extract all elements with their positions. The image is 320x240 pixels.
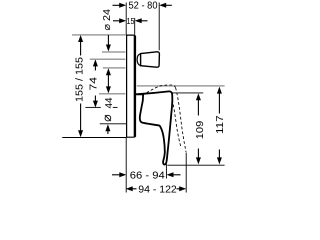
dim D24 upper arrow xyxy=(107,35,109,46)
gray reference line G5 (dashed lever top, ref for 117) xyxy=(137,85,225,87)
gray reference line G2 (knob centre) xyxy=(90,58,126,60)
gray reference line G0 (top of plate level) xyxy=(72,34,126,36)
extension line: dashed lever tip for dim 94-122 xyxy=(185,153,187,193)
svg-text:⌀ 24: ⌀ 24 xyxy=(102,9,113,31)
plate front face thick line xyxy=(134,36,136,137)
escutcheon plate (side view) xyxy=(127,35,136,137)
dimension 52-80 (installation depth) xyxy=(113,0,172,11)
extension line: wall / plate back, above plate xyxy=(125,3,127,35)
dim D24 lower arrow / D44 upper arrow shared tail xyxy=(107,74,109,88)
extension line: knob tip for dim 52-80 xyxy=(158,3,160,51)
gray reference line G4 (lever hub top) xyxy=(99,93,125,95)
svg-text:52 - 80: 52 - 80 xyxy=(129,0,158,11)
dimension 15 (escutcheon depth) xyxy=(113,16,148,26)
lever handle dashed right edge xyxy=(176,88,186,152)
dimension 66-94 (lever projection) xyxy=(112,170,181,181)
dimension 94-122 (dashed lever projection) xyxy=(126,184,187,195)
extension line: plate front for dim 15 xyxy=(134,18,136,35)
lever handle dashed (swung position) top edge xyxy=(142,85,175,95)
lever handle dashed left edge xyxy=(172,100,180,146)
svg-text:66 - 94: 66 - 94 xyxy=(130,170,165,181)
extension line B3: plate bottom (dim 155) xyxy=(62,137,126,139)
gray reference line G3 (knob bottom) xyxy=(103,67,126,69)
svg-text:15: 15 xyxy=(127,16,135,26)
knob collar xyxy=(137,54,141,66)
svg-text:44: 44 xyxy=(104,97,115,108)
extension line: wall / plate back, below plate xyxy=(125,138,127,193)
dimension 109 (lever length), rotated xyxy=(195,93,206,164)
extension line: solid lever top corner, ref for 109 xyxy=(171,92,203,94)
lever handle solid outline (side view) xyxy=(136,91,173,164)
svg-text:117: 117 xyxy=(215,115,226,134)
svg-text:94 - 122: 94 - 122 xyxy=(138,184,177,195)
knob body (side view) xyxy=(141,52,160,67)
svg-text:74: 74 xyxy=(89,77,100,91)
svg-text:109: 109 xyxy=(195,120,206,139)
extension line B1: lever pivot centre (dim 74) xyxy=(85,106,100,108)
dimension 155 / 155 (escutcheon size), rotated xyxy=(75,35,86,137)
dim D44 lower arrow xyxy=(105,124,110,131)
dimension 117 (dashed lever length), rotated xyxy=(215,87,226,165)
extension line: bottom reference for 109/117 xyxy=(167,164,224,166)
gray reference line G1 (knob top) xyxy=(102,51,125,53)
dimension 74 (knob centre to lever centre), rotated xyxy=(89,59,100,107)
svg-text:⌀: ⌀ xyxy=(100,114,114,122)
extension line B2: lever hub bottom (dim 44) xyxy=(100,123,127,125)
extension line: solid lever tip for dim 66-94 xyxy=(165,164,167,179)
svg-text:155 / 155: 155 / 155 xyxy=(75,57,86,102)
